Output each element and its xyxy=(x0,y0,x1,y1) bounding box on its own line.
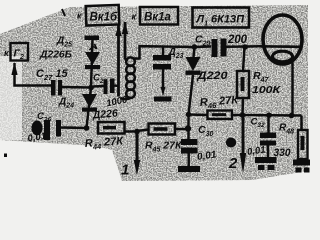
diode D23 label xyxy=(168,47,184,60)
node junction terminal 2 xyxy=(240,112,246,118)
terminal 1 label xyxy=(121,162,129,179)
node junction R45 xyxy=(185,125,191,131)
svg-text:330: 330 xyxy=(274,147,292,159)
inductor L coil xyxy=(126,57,135,98)
svg-text:Л1 6К13П: Л1 6К13П xyxy=(196,14,246,28)
ink dot xyxy=(4,154,7,158)
switch label Vk1b xyxy=(77,11,82,21)
node junction R47 top xyxy=(242,44,248,50)
node junction terminal 1 xyxy=(134,129,140,135)
ground xyxy=(255,157,277,170)
wire to G2 with arrow xyxy=(15,63,52,86)
node junction D23 top xyxy=(192,44,198,50)
resistor R48 label xyxy=(274,123,295,160)
ink blob xyxy=(226,138,236,148)
resistor R47 label xyxy=(252,70,282,96)
capacitor C29 xyxy=(212,39,227,58)
node junction R46 xyxy=(186,112,192,118)
diode D24 xyxy=(82,94,97,112)
diode D24 label xyxy=(58,97,74,110)
ground xyxy=(154,97,172,102)
svg-text:к: к xyxy=(132,12,137,22)
svg-text:С27 15: С27 15 xyxy=(36,68,68,82)
svg-text:к: к xyxy=(4,48,9,58)
resistor R44 label xyxy=(84,135,124,152)
resistor R45 label xyxy=(145,140,183,154)
node junction C32 xyxy=(266,112,272,118)
diode D25 label xyxy=(39,36,72,61)
capacitor C30 label xyxy=(196,124,217,163)
ink tick artifact xyxy=(62,9,65,16)
capacitor C27 label xyxy=(36,68,68,82)
capacitor C32 xyxy=(267,115,270,132)
wire top bus xyxy=(163,45,211,48)
svg-text:Вк1б: Вк1б xyxy=(90,12,119,24)
wire xyxy=(61,126,87,129)
node junction C27/C28 xyxy=(88,85,94,91)
wire xyxy=(62,86,91,89)
terminal 2 label xyxy=(228,155,238,172)
wire bottom bus xyxy=(232,114,302,117)
resistor R48 xyxy=(300,116,303,131)
svg-text:2: 2 xyxy=(228,155,238,172)
capacitor C29 label xyxy=(195,34,248,48)
svg-text:Д226Б: Д226Б xyxy=(39,50,72,61)
node junction C26/R44 xyxy=(84,125,90,131)
terminal 2 wire arrow xyxy=(242,115,245,155)
diode D24 value label xyxy=(91,107,118,121)
resistor R46 xyxy=(189,113,208,116)
node junction cathode xyxy=(289,113,295,119)
svg-text:к: к xyxy=(77,11,82,21)
wire diode chain xyxy=(87,40,93,128)
ink squiggle xyxy=(90,44,97,50)
svg-text:Д220: Д220 xyxy=(196,70,228,82)
wire riser to Vk1a with arrow xyxy=(124,22,127,60)
wire riser2 to coil xyxy=(125,59,128,61)
ground xyxy=(178,166,200,172)
grid capacitor column xyxy=(162,47,165,56)
capacitor C26 xyxy=(32,120,62,140)
tube cathode xyxy=(273,51,293,62)
wire riser to Vk1b with arrow xyxy=(117,25,120,97)
diode chain top bar xyxy=(85,36,100,41)
capacitor C28 xyxy=(104,79,115,95)
wire cathode lead xyxy=(291,59,294,116)
tube grid line xyxy=(259,45,302,48)
wire xyxy=(189,75,194,139)
diode D23 value label xyxy=(196,70,228,82)
tube label box L1 6K13P xyxy=(193,8,250,28)
wire coil bottom hook xyxy=(121,98,131,99)
capacitor C28 label xyxy=(93,73,107,86)
svg-text:Вк1а: Вк1а xyxy=(144,12,172,24)
svg-text:R45 27К: R45 27К xyxy=(145,140,183,154)
resistor R45 xyxy=(149,124,176,135)
diode D23 xyxy=(194,47,195,57)
wire xyxy=(227,45,260,48)
wire xyxy=(115,84,119,87)
resistor R47 xyxy=(243,47,245,71)
svg-text:100К: 100К xyxy=(252,84,282,96)
svg-text:Д226: Д226 xyxy=(91,107,118,121)
terminal G2 box xyxy=(11,43,29,61)
svg-text:200: 200 xyxy=(227,34,248,46)
capacitor C32 label xyxy=(246,117,266,158)
wire coil top link xyxy=(134,46,164,58)
diode D25 xyxy=(85,52,100,69)
switch label Vk1a xyxy=(132,12,137,22)
terminal G2 label xyxy=(4,48,9,58)
ground xyxy=(293,160,310,173)
wire xyxy=(93,85,104,88)
terminal 1 wire arrow xyxy=(136,131,139,162)
capacitor C26 label xyxy=(37,111,51,124)
capacitor C30 xyxy=(181,139,198,154)
tube V1 envelope xyxy=(263,15,302,64)
resistor R46 label xyxy=(199,94,239,111)
svg-text:1: 1 xyxy=(121,162,129,179)
inductor value label 1000 xyxy=(105,94,129,109)
capacitor C27 xyxy=(51,80,62,96)
resistor R44 xyxy=(98,122,125,134)
